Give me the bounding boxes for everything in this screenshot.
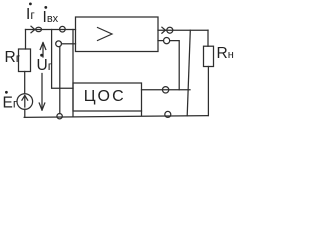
- wire top from source corner to amplifier input: [26, 29, 76, 31]
- terminal circle top input: [60, 26, 66, 32]
- wire W3 DSP right: [142, 89, 191, 91]
- voltage arrow Ur up part: [42, 44, 44, 57]
- wire DSP right edge stub: [141, 111, 143, 116]
- node circle bottom left: [57, 114, 62, 119]
- terminal circle lower input: [56, 41, 62, 47]
- source Er circle: [17, 94, 33, 110]
- wire W1 vertical bracket / DSP left: [72, 30, 74, 117]
- wire lower output to W3: [170, 41, 179, 90]
- wire V2 vertical from top wire down: [52, 30, 73, 89]
- DSP box: [73, 83, 142, 111]
- resistor Rr body: [19, 49, 31, 72]
- wire vertical to bottom node: [59, 47, 61, 114]
- wire lower input lead: [62, 43, 76, 45]
- wire output top lead: [158, 29, 208, 31]
- svg-text:Eг: Eг: [3, 95, 18, 112]
- svg-text:Iг: Iг: [26, 6, 35, 23]
- op-amp gain symbol: [98, 28, 113, 41]
- wire vertical x190: [187, 30, 190, 116]
- current arrow output: [162, 27, 166, 33]
- wire bottom: [24, 116, 208, 118]
- terminal circle on W3: [162, 87, 168, 93]
- node circle bottom right: [165, 111, 171, 117]
- node circle on top wire: [36, 27, 42, 31]
- terminal circle output lower: [164, 38, 170, 44]
- terminal circle output top: [167, 27, 173, 33]
- svg-text:Iвх: Iвх: [43, 9, 59, 26]
- svg-text:Rг: Rг: [5, 49, 21, 66]
- wire output lower lead: [158, 40, 164, 42]
- wire left vertical source branch: [25, 30, 27, 50]
- voltage arrow Ur down part: [41, 74, 43, 110]
- resistor Rn body: [204, 46, 214, 66]
- svg-text:ЦОС: ЦОС: [84, 88, 126, 105]
- wire resistor to source: [24, 72, 26, 94]
- wire Rn to bottom: [207, 67, 209, 116]
- svg-text:Rн: Rн: [217, 45, 234, 62]
- wire source to bottom: [24, 109, 26, 117]
- op-amp U1 box: [76, 17, 159, 52]
- source Er arrow: [24, 97, 26, 108]
- wire right down to Rn: [207, 30, 209, 46]
- svg-text:Uг: Uг: [37, 57, 53, 74]
- current arrow Ir on top wire: [31, 26, 35, 33]
